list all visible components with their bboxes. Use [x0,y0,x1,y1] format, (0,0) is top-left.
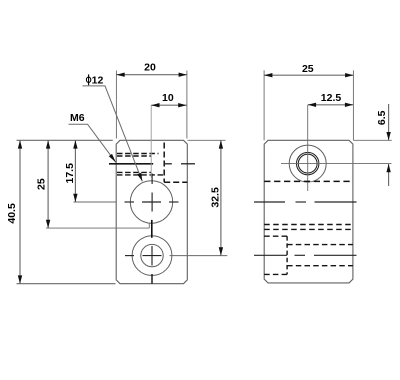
svg-text:20: 20 [144,62,156,74]
svg-text:M6: M6 [70,112,85,124]
svg-text:6.5: 6.5 [376,110,388,125]
svg-text:25: 25 [302,63,314,75]
svg-text:32.5: 32.5 [210,187,222,208]
svg-text:40.5: 40.5 [6,203,18,224]
svg-text:10: 10 [162,92,174,104]
svg-text:25: 25 [36,178,48,190]
svg-text:17.5: 17.5 [64,163,76,184]
svg-text:12: 12 [92,74,104,86]
svg-text:12.5: 12.5 [321,92,342,104]
